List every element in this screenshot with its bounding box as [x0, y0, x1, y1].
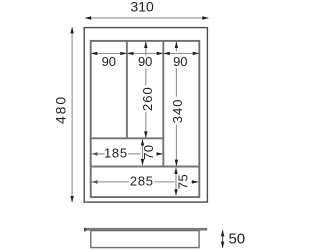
side view body — [91, 231, 199, 248]
svg-text:340: 340 — [170, 99, 185, 124]
inner tray rect (top view) — [91, 41, 200, 197]
dim 90 middle compartment — [127, 52, 163, 69]
side view flange left end cap — [84, 228, 86, 231]
svg-text:90: 90 — [173, 54, 187, 69]
svg-text:50: 50 — [228, 231, 245, 248]
dim 75 bottom compartment height — [174, 167, 190, 196]
outer tray rect (top view) — [84, 28, 207, 203]
divider V1 — [126, 41, 128, 138]
dim 185 compartment width — [91, 145, 163, 160]
svg-text:70: 70 — [141, 144, 156, 159]
svg-text:185: 185 — [104, 145, 128, 160]
divider H-A — [91, 137, 164, 139]
divider H-B — [91, 166, 200, 168]
dim 260 middle compartment height — [140, 41, 155, 138]
svg-text:285: 285 — [130, 174, 154, 189]
svg-text:75: 75 — [176, 174, 191, 189]
svg-text:90: 90 — [138, 54, 152, 69]
dim 50 side view height — [221, 230, 245, 248]
side view flange — [84, 228, 207, 231]
dim 480 (left height) — [53, 27, 74, 203]
svg-text:260: 260 — [140, 86, 155, 111]
dim 70 compartment height — [141, 139, 156, 166]
svg-text:310: 310 — [130, 0, 154, 14]
dim 310 (top width) — [85, 0, 209, 20]
svg-text:480: 480 — [53, 95, 69, 124]
dim 285 bottom compartment width — [91, 174, 199, 189]
dim 90 left compartment — [91, 52, 127, 69]
divider V2 — [162, 41, 164, 167]
dim 90 right compartment — [163, 52, 199, 69]
svg-text:90: 90 — [102, 54, 116, 69]
dim 340 right compartment height — [170, 41, 185, 166]
